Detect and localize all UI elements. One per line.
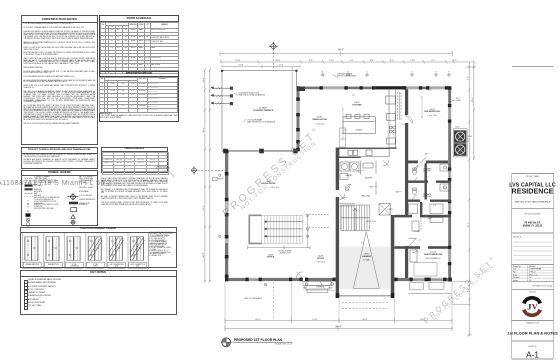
laundry and hall fixtures [339, 161, 421, 232]
svg-text:OFFICE: OFFICE [267, 257, 275, 259]
svg-text:17'-0": 17'-0" [312, 319, 318, 321]
svg-text:12'-2": 12'-2" [467, 222, 469, 228]
svg-text:13'-2": 13'-2" [203, 205, 205, 211]
title block side borders [511, 174, 513, 360]
svg-text:PROPOSED 1ST FLOOR PLAN: PROPOSED 1ST FLOOR PLAN [234, 338, 283, 342]
wall east [448, 87, 451, 282]
bedroom closet [341, 92, 413, 170]
svg-text:FOYER: FOYER [414, 231, 421, 233]
stair [341, 205, 369, 231]
watermark progress set (plan centre) [209, 114, 336, 230]
svg-text:4 RISERS: 4 RISERS [316, 287, 323, 289]
svg-text:F: F [449, 72, 450, 74]
svg-text:16'-4": 16'-4" [203, 127, 205, 133]
plan title [221, 338, 293, 347]
svg-text:21'-0": 21'-0" [203, 77, 205, 83]
svg-text:14'-8": 14'-8" [238, 65, 244, 67]
grid marker diamond left [191, 166, 225, 175]
svg-text:LAUNDRY: LAUNDRY [364, 177, 373, 180]
svg-text:8'-2": 8'-2" [453, 60, 457, 62]
product control approval and shop drawing notes box [21, 147, 98, 168]
svg-text:2'-6": 2'-6" [358, 172, 361, 174]
svg-text:LINE OF OVERHANG: LINE OF OVERHANG [244, 297, 262, 300]
svg-text:A: A [322, 71, 324, 74]
svg-text:W.I.C.: W.I.C. [425, 154, 430, 156]
covered terrace outline [222, 71, 297, 150]
svg-text:KITCHEN: KITCHEN [352, 105, 362, 107]
bath fixtures [409, 157, 451, 262]
sliding door stack [249, 215, 261, 243]
svg-text:2ND BEDROOM: 2ND BEDROOM [424, 111, 440, 113]
svg-text:6'-1": 6'-1" [433, 205, 436, 207]
svg-text:E: E [435, 72, 436, 74]
jv seal [524, 298, 540, 316]
key notes box [20, 270, 177, 315]
watermark MLS number [0, 178, 111, 187]
kitchen south counter & sink [339, 149, 389, 157]
wall living west [225, 150, 228, 281]
svg-text:84'-4": 84'-4" [336, 326, 342, 328]
south porch steps [303, 282, 452, 294]
svg-text:18'-4": 18'-4" [362, 319, 368, 321]
svg-text:16'-2": 16'-2" [255, 319, 261, 321]
svg-text:GLASS DOOR: GLASS DOOR [279, 252, 291, 255]
finish schedule table [101, 147, 168, 173]
guest bed [414, 263, 437, 277]
garage [339, 232, 391, 309]
svg-text:BATH RM: BATH RM [423, 195, 431, 198]
svg-text:9'-0": 9'-0" [352, 95, 355, 97]
svg-text:LINEN: LINEN [388, 209, 394, 211]
svg-text:W-02: W-02 [428, 90, 432, 92]
finish schedule note bubble + leader [155, 164, 180, 180]
dim line right [469, 62, 474, 335]
revision rows [513, 242, 552, 260]
dim line top overall [220, 51, 452, 56]
svg-text:GUEST BEDROOM: GUEST BEDROOM [424, 254, 443, 256]
svg-text:MIN. FROM BLDG. FOUNDATION: MIN. FROM BLDG. FOUNDATION [248, 120, 276, 123]
svg-text:WDW: WDW [303, 287, 307, 289]
svg-text:9'-2": 9'-2" [467, 76, 469, 80]
svg-text:18'-0": 18'-0" [203, 252, 205, 258]
svg-text:(2 CAR): (2 CAR) [363, 259, 370, 262]
svg-text:ROOM: ROOM [317, 258, 324, 260]
svg-text:5'-2": 5'-2" [349, 60, 353, 62]
svg-text:CONC: CONC [456, 100, 462, 102]
dim line terrace [222, 65, 300, 68]
svg-text:2ND FLOOR: 2ND FLOOR [366, 221, 376, 223]
door swings [297, 165, 420, 278]
ac condensers [453, 127, 472, 157]
garage slab [340, 247, 390, 290]
dim line top segments [220, 60, 476, 64]
terrace colonnade [222, 150, 299, 152]
svg-text:24'-0": 24'-0" [275, 60, 281, 62]
symbol legend box [21, 170, 98, 226]
construction notes box [21, 15, 98, 145]
svg-text:3'-0": 3'-0" [370, 187, 373, 189]
svg-text:6'-4": 6'-4" [370, 60, 374, 62]
svg-text:PANTRY: PANTRY [346, 174, 354, 177]
svg-text:9'-2": 9'-2" [431, 60, 435, 62]
svg-text:◇ 9'-0" CLG: ◇ 9'-0" CLG [427, 114, 437, 117]
svg-text:HALL WAY: HALL WAY [362, 195, 371, 198]
svg-text:8'-4": 8'-4" [309, 60, 313, 62]
svg-text:14'-8": 14'-8" [235, 60, 241, 62]
svg-text:7'-10": 7'-10" [329, 60, 335, 62]
finish schedule notes [101, 179, 168, 209]
svg-text:84'-0": 84'-0" [338, 49, 344, 51]
wall north [297, 87, 452, 90]
svg-text:21'-4": 21'-4" [472, 97, 474, 103]
svg-text:GARAGE: GARAGE [362, 255, 372, 258]
svg-text:C: C [366, 72, 368, 74]
svg-text:◇ 9'-0 CLG: ◇ 9'-0 CLG [316, 261, 326, 264]
title block top rule [512, 66, 554, 68]
svg-text:5'-0": 5'-0" [396, 192, 399, 194]
svg-text:8'-0": 8'-0" [390, 60, 394, 62]
svg-text:12'-4": 12'-4" [278, 65, 284, 67]
svg-text:7'-10": 7'-10" [410, 60, 416, 62]
watermark progress set (bottom right) [405, 239, 515, 340]
dim line bottom [225, 318, 452, 323]
wall south [225, 278, 303, 281]
wall dining west [297, 87, 300, 152]
dim line left [205, 70, 210, 281]
svg-text:BATH RM: BATH RM [423, 170, 431, 173]
svg-text:ISLAND: ISLAND [356, 129, 363, 132]
svg-text:B: B [347, 72, 348, 74]
kitchen east counter [386, 89, 396, 147]
svg-text:3'-4": 3'-4" [418, 240, 421, 242]
interior walls [336, 148, 339, 190]
svg-text:D-07: D-07 [402, 124, 405, 126]
svg-text:2'-8": 2'-8" [412, 162, 415, 164]
svg-text:SCALE: 3/16" = 1'-0": SCALE: 3/16" = 1'-0" [275, 343, 292, 346]
svg-text:4'-2": 4'-2" [342, 198, 345, 200]
grid marker diamond top [269, 42, 278, 71]
svg-text:CU-2: CU-2 [468, 136, 472, 138]
window schedule table [99, 71, 179, 122]
svg-text:COVERED TERRACE: COVERED TERRACE [253, 109, 274, 112]
door schedule table [99, 15, 179, 122]
svg-text:CU-1: CU-1 [456, 127, 460, 129]
svg-text:W.I.C: W.I.C [428, 218, 433, 220]
partition assembly legend box [20, 227, 177, 267]
svg-text:5'-6": 5'-6" [361, 243, 364, 245]
svg-text:D: D [411, 72, 413, 74]
svg-text:SEE STRUCTURAL DRAWINGS: SEE STRUCTURAL DRAWINGS [239, 94, 266, 97]
svg-text:WDW: WDW [329, 287, 333, 289]
smoke detector tag [213, 177, 224, 180]
info table rows [512, 265, 554, 282]
roof slope arrows [211, 87, 233, 106]
kitchen island [343, 114, 375, 133]
svg-text:WD-XX SLAB 9'-0: WD-XX SLAB 9'-0 [426, 257, 441, 260]
